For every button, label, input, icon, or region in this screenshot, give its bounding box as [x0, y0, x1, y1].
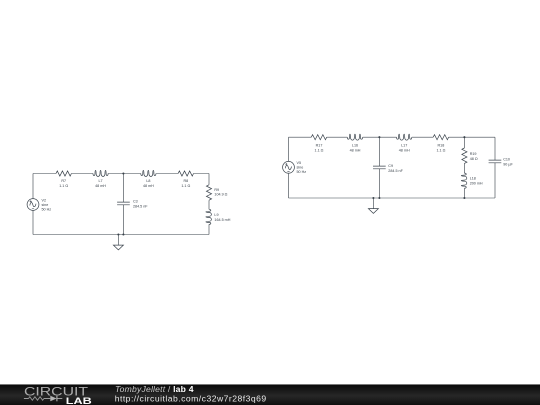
inductor L18: [461, 173, 466, 188]
svg-text:50 Hz: 50 Hz: [297, 170, 307, 174]
wire left circuit top rail: [33, 173, 209, 175]
node junction bottom of C3: [122, 233, 124, 235]
wire right circuit left edge: [288, 137, 290, 198]
svg-text:50 Hz: 50 Hz: [42, 207, 52, 211]
svg-text:C10: C10: [503, 158, 510, 162]
svg-text:sine: sine: [297, 166, 304, 170]
logo resistor symbol: [29, 397, 44, 401]
footer bar: [0, 384, 540, 405]
svg-text:1.1 Ω: 1.1 Ω: [436, 148, 445, 152]
node junction bottom of C9: [378, 197, 380, 199]
wire right edge top lead: [208, 174, 210, 235]
wire right circuit bottom rail: [289, 197, 496, 199]
ground left circuit: [117, 235, 119, 246]
svg-text:V2: V2: [42, 199, 47, 203]
node junction top of C9: [378, 136, 380, 138]
resistor R9: [206, 185, 211, 200]
svg-text:C9: C9: [388, 164, 393, 168]
svg-text:48 mH: 48 mH: [143, 184, 154, 188]
node junction ground right: [372, 197, 374, 199]
wire left edge: [32, 174, 34, 235]
wire branch R19 L18: [463, 137, 465, 198]
svg-text:48 Ω: 48 Ω: [470, 157, 478, 161]
inductor L9: [206, 209, 212, 224]
inductor L16: [347, 134, 362, 140]
svg-text:1.1 Ω: 1.1 Ω: [59, 184, 68, 188]
logo wire: [24, 398, 62, 400]
ground right circuit: [372, 198, 374, 209]
capacitor C10: [489, 160, 502, 163]
resistor R8: [178, 171, 193, 176]
svg-text:L9: L9: [214, 213, 218, 217]
svg-text:1.1 Ω: 1.1 Ω: [315, 148, 324, 152]
svg-text:104.9 Ω: 104.9 Ω: [214, 193, 227, 197]
svg-text:V5: V5: [297, 161, 302, 165]
node junction top of R19: [463, 136, 465, 138]
svg-text:200 mH: 200 mH: [470, 181, 483, 185]
wire left circuit bottom rail: [33, 234, 209, 236]
capacitor C3: [117, 202, 130, 205]
resistor R18: [433, 135, 448, 140]
wire middle branch C3: [122, 174, 124, 235]
svg-text:R7: R7: [61, 179, 66, 183]
svg-text:164.5 mH: 164.5 mH: [214, 218, 230, 222]
svg-text:L18: L18: [470, 177, 476, 181]
node junction bottom of L18: [463, 197, 465, 199]
capacitor C9: [373, 166, 386, 169]
svg-text:sine: sine: [42, 203, 49, 207]
inductor L7: [93, 170, 108, 176]
svg-text:48 mH: 48 mH: [95, 184, 106, 188]
resistor R17: [311, 135, 326, 140]
svg-text:R9: R9: [214, 188, 219, 192]
svg-text:L16: L16: [352, 144, 358, 148]
svg-text:48 mH: 48 mH: [399, 148, 410, 152]
svg-text:R17: R17: [316, 144, 323, 148]
voltage source V2: [27, 199, 39, 211]
node junction ground: [117, 233, 119, 235]
resistor R19: [462, 148, 467, 163]
inductor L17: [397, 134, 412, 140]
svg-text:L8: L8: [146, 179, 150, 183]
svg-text:http://circuitlab.com/c32w7r28: http://circuitlab.com/c32w7r28f3q69: [115, 394, 267, 404]
svg-text:C3: C3: [133, 200, 138, 204]
logo diode symbol: [50, 396, 56, 402]
svg-text:R19: R19: [470, 152, 477, 156]
wire middle branch C9: [378, 137, 380, 198]
svg-text:1.1 Ω: 1.1 Ω: [181, 184, 190, 188]
svg-text:TombyJellett / lab 4: TombyJellett / lab 4: [115, 384, 194, 394]
svg-text:L7: L7: [98, 179, 102, 183]
wire right circuit top rail: [289, 136, 496, 138]
svg-text:R8: R8: [183, 179, 188, 183]
svg-text:284.5 nF: 284.5 nF: [133, 204, 148, 208]
node junction top of C3: [122, 172, 124, 174]
svg-text:L17: L17: [401, 144, 407, 148]
svg-text:LAB: LAB: [66, 396, 92, 405]
svg-text:48 mH: 48 mH: [350, 148, 361, 152]
svg-text:284.5 nF: 284.5 nF: [388, 169, 403, 173]
resistor R7: [56, 171, 71, 176]
voltage source V5: [283, 161, 295, 173]
wire right edge with C10: [494, 137, 496, 198]
svg-text:90 µF: 90 µF: [503, 162, 513, 166]
svg-text:R18: R18: [438, 144, 445, 148]
inductor L8: [141, 170, 156, 176]
